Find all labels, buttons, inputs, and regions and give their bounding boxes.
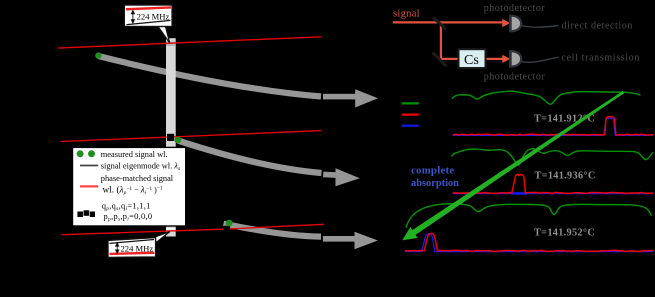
svg-text:signal: signal: [393, 8, 420, 19]
svg-text:photodetector: photodetector: [484, 71, 546, 82]
svg-text:Cs: Cs: [464, 53, 479, 68]
svg-text:224 MHz: 224 MHz: [137, 11, 170, 21]
svg-text:T=141.952°C: T=141.952°C: [534, 227, 595, 238]
svg-text:complete: complete: [411, 165, 454, 177]
svg-text:absorption: absorption: [411, 178, 459, 189]
svg-text:phase-matched signal: phase-matched signal: [101, 174, 174, 183]
svg-text:cell transmission: cell transmission: [562, 53, 641, 64]
svg-text:measured signal wl.: measured signal wl.: [101, 150, 168, 159]
svg-text:224 MHz: 224 MHz: [121, 243, 154, 253]
svg-text:wl. (λp−1 − λi−1 )−1: wl. (λp−1 − λi−1 )−1: [103, 185, 163, 197]
svg-text:T=141.936°C: T=141.936°C: [535, 170, 596, 181]
svg-text:signal eigenmode wl. λs: signal eigenmode wl. λs: [101, 161, 180, 172]
svg-text:photodetector: photodetector: [484, 3, 546, 14]
svg-text:direct detection: direct detection: [562, 21, 634, 32]
